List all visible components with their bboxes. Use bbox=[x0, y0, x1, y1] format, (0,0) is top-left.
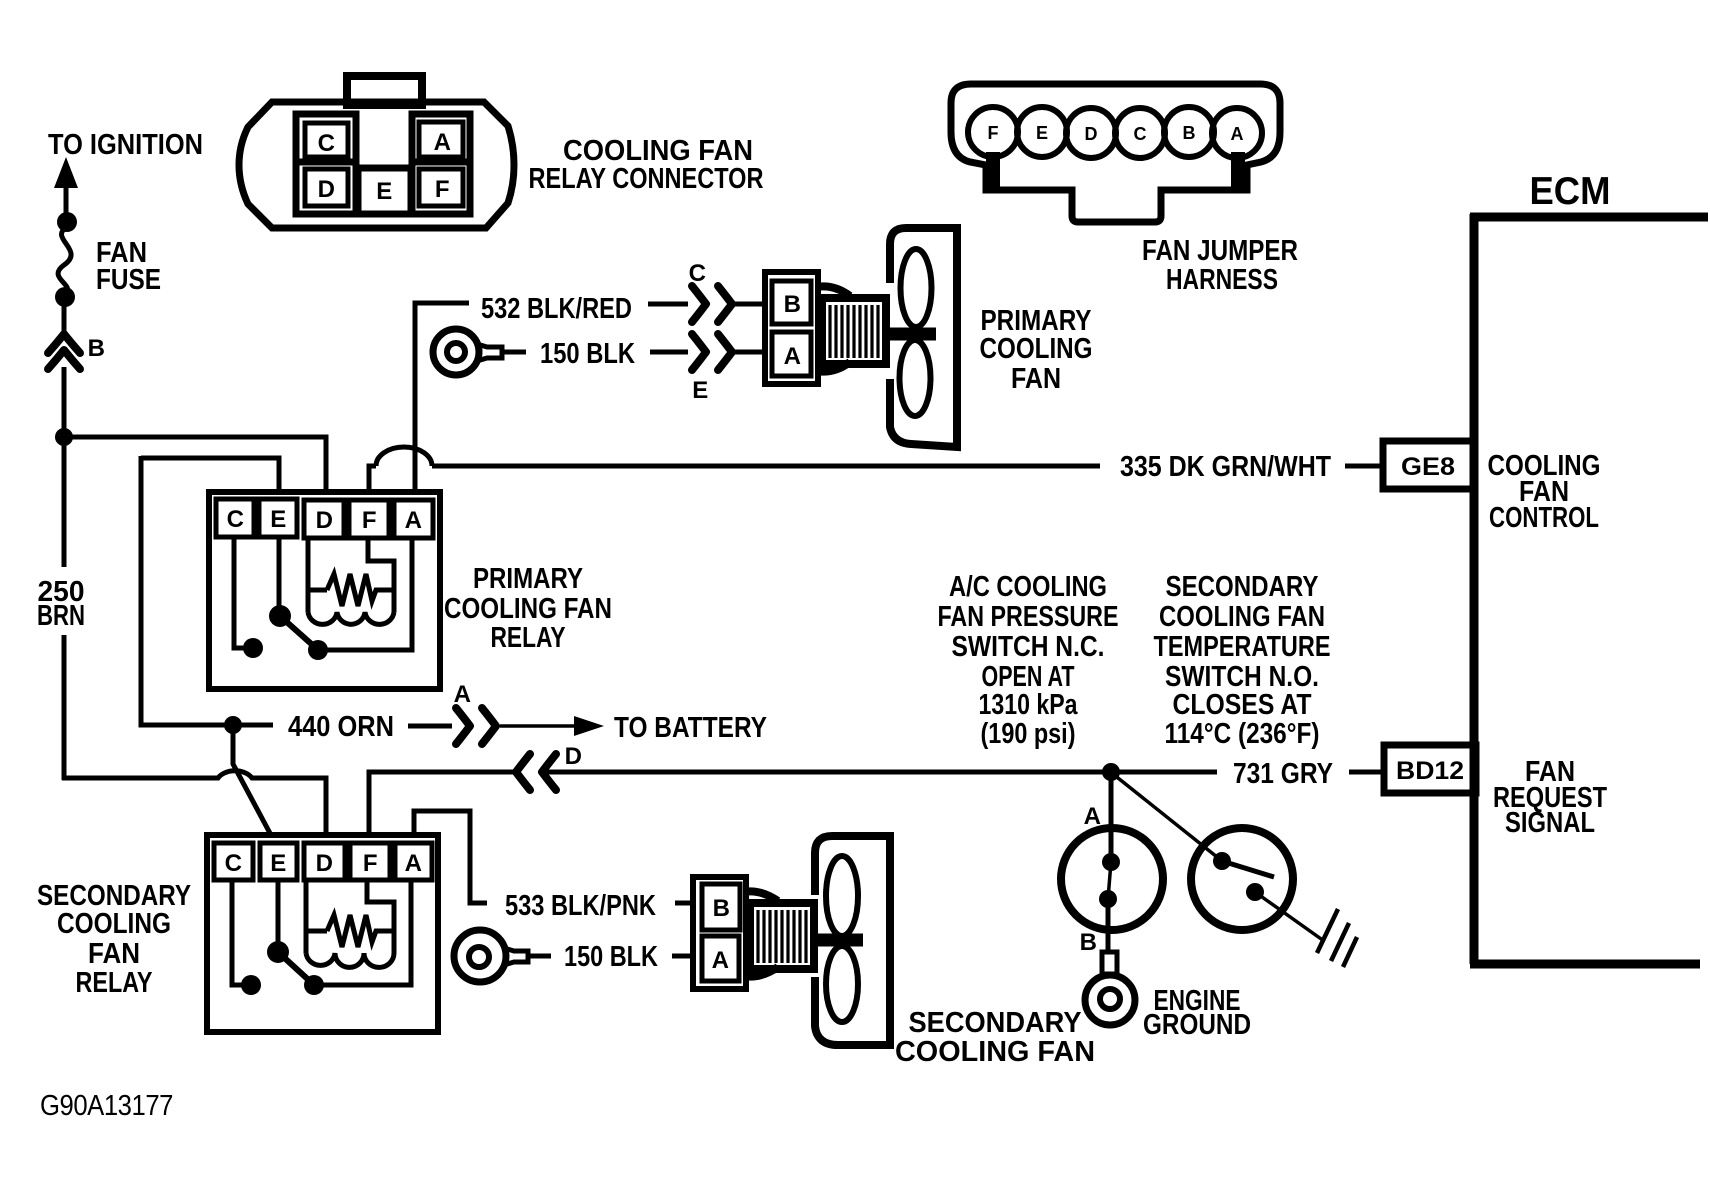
svg-text:BRN: BRN bbox=[37, 600, 85, 632]
svg-text:150 BLK: 150 BLK bbox=[564, 941, 658, 973]
svg-text:B: B bbox=[784, 291, 801, 318]
svg-text:B: B bbox=[713, 895, 730, 922]
svg-text:731 GRY: 731 GRY bbox=[1233, 758, 1333, 790]
svg-text:COOLING: COOLING bbox=[57, 908, 171, 940]
svg-text:C: C bbox=[689, 260, 706, 287]
svg-text:C: C bbox=[225, 850, 242, 877]
svg-text:440 ORN: 440 ORN bbox=[288, 711, 394, 743]
svg-text:F: F bbox=[988, 123, 999, 143]
svg-text:E: E bbox=[270, 850, 286, 877]
svg-text:FAN JUMPER: FAN JUMPER bbox=[1142, 235, 1298, 267]
svg-text:A: A bbox=[454, 681, 471, 708]
svg-text:D: D bbox=[1085, 124, 1098, 144]
svg-text:532 BLK/RED: 532 BLK/RED bbox=[481, 293, 632, 325]
svg-text:D: D bbox=[316, 850, 333, 877]
svg-text:A: A bbox=[712, 947, 729, 974]
svg-text:GROUND: GROUND bbox=[1143, 1009, 1251, 1041]
svg-text:RELAY: RELAY bbox=[491, 622, 566, 654]
svg-text:BD12: BD12 bbox=[1396, 757, 1464, 785]
svg-text:COOLING FAN: COOLING FAN bbox=[895, 1036, 1095, 1068]
svg-text:FAN: FAN bbox=[88, 938, 140, 970]
svg-text:B: B bbox=[88, 335, 105, 362]
svg-text:G90A13177: G90A13177 bbox=[40, 1090, 173, 1122]
svg-text:A: A bbox=[1231, 124, 1244, 144]
svg-text:E: E bbox=[692, 377, 708, 404]
svg-text:F: F bbox=[363, 850, 377, 877]
svg-text:FAN: FAN bbox=[1011, 363, 1061, 395]
svg-text:A: A bbox=[405, 850, 422, 877]
svg-text:D: D bbox=[565, 743, 582, 770]
svg-text:A: A bbox=[434, 129, 451, 156]
svg-text:HARNESS: HARNESS bbox=[1166, 264, 1278, 296]
svg-text:TO IGNITION: TO IGNITION bbox=[48, 129, 203, 161]
svg-text:PRIMARY: PRIMARY bbox=[473, 563, 583, 595]
svg-text:C: C bbox=[1134, 124, 1147, 144]
svg-text:ECM: ECM bbox=[1530, 170, 1611, 213]
svg-text:(190 psi): (190 psi) bbox=[981, 718, 1076, 750]
svg-text:CONTROL: CONTROL bbox=[1489, 502, 1599, 534]
svg-text:C: C bbox=[227, 506, 244, 533]
svg-text:A: A bbox=[784, 343, 801, 370]
svg-text:150 BLK: 150 BLK bbox=[540, 338, 635, 370]
svg-text:SWITCH N.C.: SWITCH N.C. bbox=[952, 631, 1105, 663]
svg-text:E: E bbox=[376, 178, 392, 205]
svg-text:COOLING FAN: COOLING FAN bbox=[444, 593, 612, 625]
svg-text:SECONDARY: SECONDARY bbox=[1166, 571, 1319, 603]
svg-text:A/C COOLING: A/C COOLING bbox=[949, 571, 1107, 603]
svg-text:A: A bbox=[1084, 803, 1101, 830]
svg-text:RELAY CONNECTOR: RELAY CONNECTOR bbox=[529, 163, 764, 195]
svg-text:FUSE: FUSE bbox=[96, 264, 161, 296]
svg-text:RELAY: RELAY bbox=[76, 967, 153, 999]
svg-text:533 BLK/PNK: 533 BLK/PNK bbox=[505, 890, 656, 922]
svg-text:E: E bbox=[270, 506, 286, 533]
svg-text:A: A bbox=[405, 507, 422, 534]
svg-text:F: F bbox=[362, 507, 376, 534]
svg-text:E: E bbox=[1036, 123, 1048, 143]
svg-text:CLOSES AT: CLOSES AT bbox=[1173, 689, 1312, 721]
svg-text:114°C (236°F): 114°C (236°F) bbox=[1165, 718, 1320, 750]
svg-text:B: B bbox=[1080, 929, 1097, 956]
svg-text:SECONDARY: SECONDARY bbox=[909, 1007, 1082, 1039]
svg-text:COOLING FAN: COOLING FAN bbox=[1159, 601, 1325, 633]
svg-text:1310 kPa: 1310 kPa bbox=[979, 689, 1079, 721]
svg-text:GE8: GE8 bbox=[1401, 453, 1455, 481]
svg-text:SIGNAL: SIGNAL bbox=[1505, 807, 1595, 839]
svg-text:B: B bbox=[1183, 123, 1196, 143]
svg-text:COOLING: COOLING bbox=[980, 333, 1093, 365]
svg-text:D: D bbox=[318, 176, 335, 203]
svg-text:F: F bbox=[435, 176, 449, 203]
svg-text:335 DK GRN/WHT: 335 DK GRN/WHT bbox=[1120, 451, 1331, 483]
svg-text:FAN PRESSURE: FAN PRESSURE bbox=[938, 601, 1119, 633]
svg-text:TEMPERATURE: TEMPERATURE bbox=[1154, 631, 1331, 663]
svg-text:D: D bbox=[316, 507, 333, 534]
svg-text:TO BATTERY: TO BATTERY bbox=[614, 712, 767, 744]
svg-text:C: C bbox=[318, 130, 335, 157]
